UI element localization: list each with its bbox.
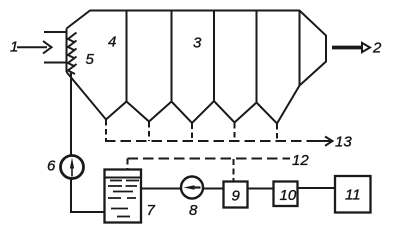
svg-text:4: 4 [108,34,116,51]
svg-text:9: 9 [232,188,241,205]
svg-text:2: 2 [372,40,382,57]
svg-text:10: 10 [280,187,297,204]
svg-text:1: 1 [10,39,18,56]
svg-text:12: 12 [292,152,309,169]
svg-text:7: 7 [147,202,156,219]
svg-text:8: 8 [189,202,198,219]
svg-text:13: 13 [335,134,352,151]
svg-text:3: 3 [193,35,202,52]
svg-text:11: 11 [345,187,361,204]
svg-text:6: 6 [47,158,56,175]
svg-text:5: 5 [86,51,95,68]
